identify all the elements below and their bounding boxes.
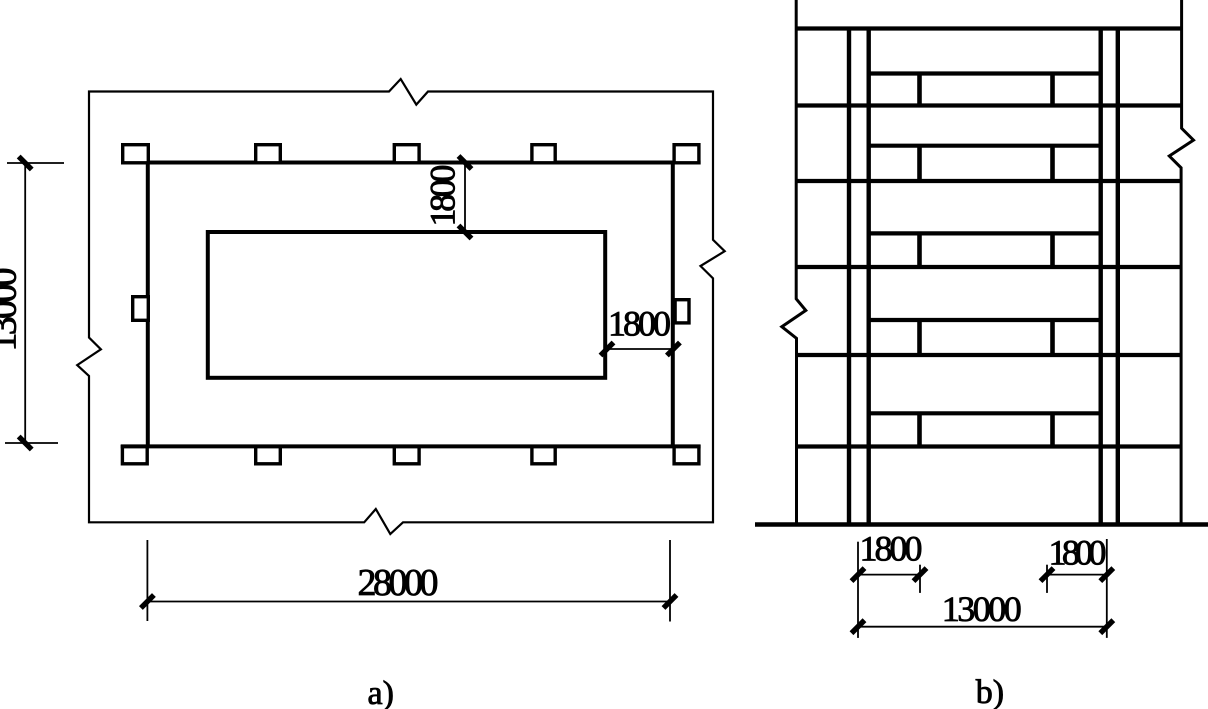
svg-text:13000: 13000 <box>0 268 24 352</box>
svg-text:b): b) <box>976 674 1004 709</box>
svg-text:1800: 1800 <box>422 165 462 227</box>
svg-text:1800: 1800 <box>608 304 671 344</box>
svg-text:1800: 1800 <box>860 529 923 569</box>
svg-text:28000: 28000 <box>358 562 439 604</box>
svg-text:a): a) <box>368 675 394 709</box>
svg-text:1800: 1800 <box>1049 533 1107 573</box>
svg-text:13000: 13000 <box>942 589 1022 629</box>
